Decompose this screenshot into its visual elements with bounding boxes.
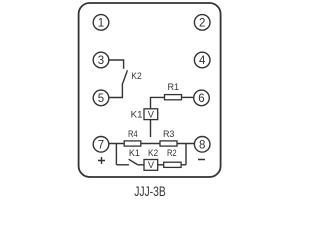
svg-text:V: V [148, 110, 155, 120]
svg-text:2: 2 [199, 17, 205, 29]
svg-text:R4: R4 [128, 128, 138, 139]
svg-text:K2: K2 [131, 70, 141, 81]
svg-text:K2: K2 [148, 147, 158, 158]
svg-text:JJJ-3B: JJJ-3B [134, 184, 166, 199]
svg-text:K1: K1 [129, 147, 140, 158]
svg-text:R1: R1 [168, 81, 180, 92]
svg-text:7: 7 [98, 139, 104, 151]
svg-text:1: 1 [98, 17, 104, 29]
svg-text:K1: K1 [131, 108, 143, 119]
svg-text:V: V [148, 160, 155, 170]
svg-text:5: 5 [98, 93, 104, 105]
svg-text:3: 3 [98, 55, 104, 67]
svg-text:8: 8 [199, 139, 205, 151]
svg-text:6: 6 [198, 93, 204, 105]
svg-text:R3: R3 [163, 128, 175, 139]
svg-text:4: 4 [199, 55, 206, 67]
svg-text:R2: R2 [167, 147, 177, 158]
